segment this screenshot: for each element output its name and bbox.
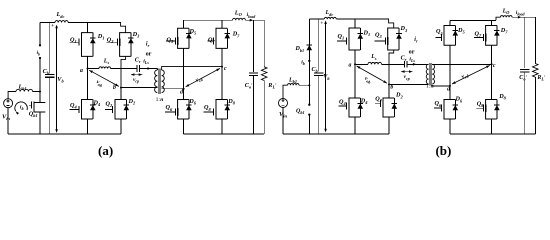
svg-text:Ls: Ls	[103, 59, 110, 66]
secondary top bus (a)	[184, 19, 233, 21]
wire node a to Q4	[87, 69, 89, 100]
svg-text:Lb1: Lb1	[288, 77, 297, 84]
switch Q1 / diode D1	[70, 33, 105, 57]
wire LO to output	[245, 19, 264, 21]
current arrow iload (a)	[247, 12, 257, 21]
node d	[180, 88, 184, 96]
node b (b)	[388, 83, 393, 90]
primary top bus (a)	[40, 22, 55, 24]
wire Ls to Cr (b)	[382, 63, 405, 65]
svg-text:Ldc: Ldc	[325, 10, 334, 17]
svg-text:n: n	[160, 97, 163, 103]
svg-text:ib: ib	[301, 59, 305, 66]
svg-text:Co′: Co′	[519, 75, 527, 82]
svg-text:b: b	[390, 84, 393, 90]
switch Q2 / diode D2 (b)	[375, 92, 404, 117]
switch Q3 / diode D3 (b)	[375, 25, 408, 50]
Qb1 body	[29, 101, 45, 112]
svg-text:RL′: RL′	[536, 75, 546, 82]
svg-text:+: +	[320, 21, 323, 27]
voltage arrow vcp (b)	[401, 70, 413, 80]
riser boost node to top bus with terminals	[37, 23, 42, 92]
wire Vin bottom to bus (b)	[282, 108, 284, 135]
primary top bus (b)	[309, 18, 324, 20]
wire bus to Q7	[221, 20, 223, 28]
svg-text:Vb: Vb	[323, 74, 330, 81]
wire bus to Q1 (b)	[354, 19, 356, 28]
wire transformer primary top	[156, 69, 158, 71]
transformer T (a) 1:n	[155, 68, 165, 103]
wire Cr to transformer (b)	[407, 63, 429, 65]
svg-text:ib: ib	[37, 51, 40, 57]
wire node d to Q6	[183, 89, 185, 100]
svg-text:ir: ir	[414, 37, 418, 44]
switch Q5 / diode D5	[166, 28, 197, 49]
current arrow iLs (a)	[143, 59, 151, 70]
wire LO to output (b)	[512, 16, 535, 18]
wire Q6 to bus	[183, 119, 185, 134]
capacitor Cr (b)	[401, 55, 408, 67]
wire node d to Q6 (b)	[449, 86, 451, 100]
wire node b to primary bottom	[121, 87, 157, 89]
voltage arrow vcd (b)	[452, 65, 490, 84]
wire node b to Q2	[120, 88, 122, 100]
wire Q1 source to node a	[87, 56, 89, 68]
svg-text:or: or	[146, 51, 152, 58]
wire bus to Q5	[183, 20, 185, 28]
current arrow iLs (b)	[409, 57, 416, 66]
inductor LO (b)	[501, 8, 513, 17]
wire Q4 source to bus	[87, 119, 89, 134]
capacitor Cr (a)	[135, 58, 141, 72]
svg-text:vcp: vcp	[404, 74, 410, 81]
wire Cr to transformer	[140, 68, 158, 70]
svg-text:iload: iload	[516, 10, 526, 17]
wire Lb1 to boost node (b)	[299, 84, 309, 86]
transistor Qb1 terminals (b)	[296, 85, 310, 134]
wire Vin top to Lb1 (b)	[283, 85, 288, 98]
source Vin (a)	[2, 99, 13, 122]
voltage arrow Vb (a)	[51, 23, 64, 133]
switch Q3 / diode D3	[107, 31, 141, 57]
wire node b to Q2 (b)	[388, 84, 390, 98]
current arrow ib (b)	[301, 59, 310, 66]
voltage arrow vcp (a)	[131, 73, 143, 83]
svg-text:c: c	[493, 63, 496, 69]
capacitor Cb (b)	[312, 19, 324, 134]
wire Q7 to node c (b)	[491, 45, 493, 64]
wire Q6 to bus (b)	[449, 119, 451, 134]
node b	[113, 85, 122, 91]
wire bus to Q1	[87, 23, 89, 33]
inductor LO (a)	[233, 9, 246, 20]
svg-text:(a): (a)	[98, 143, 113, 158]
wire bus jog to Q3 (b)	[389, 19, 394, 28]
wire Q4 to bus (b)	[354, 117, 356, 134]
wire Q3 to node b (b)	[389, 50, 394, 84]
wire Vin bottom to ground bus	[7, 108, 9, 134]
svg-text:or: or	[409, 48, 415, 55]
svg-text:iload: iload	[247, 12, 257, 19]
svg-text:c: c	[224, 66, 227, 72]
svg-text:Cr: Cr	[401, 55, 407, 62]
inductor Lb1 (a)	[16, 84, 33, 92]
svg-text:Cr: Cr	[135, 58, 141, 65]
primary ground bus (b)	[283, 133, 389, 135]
resistor RL' (a)	[261, 20, 277, 134]
switch Q6 / diode D6	[165, 98, 197, 119]
inductor Ldc (b)	[324, 10, 336, 19]
voltage arrow Vb (b)	[320, 20, 330, 132]
svg-text:iLs: iLs	[409, 57, 415, 64]
inductor Ls (b)	[368, 54, 382, 64]
svg-text:d: d	[180, 89, 183, 95]
svg-text:n: n	[431, 84, 434, 90]
transformer T (b) 1:n	[426, 63, 435, 90]
secondary ground bus (b)	[450, 133, 535, 135]
wire node a to Ls (b)	[355, 63, 368, 65]
current arrow ib (a)	[15, 102, 27, 115]
wire secondary top to node c (b)	[432, 63, 491, 65]
wire secondary top to node c	[162, 67, 222, 70]
switch Q4 / diode D4	[70, 99, 101, 119]
wire bus to Q7 (b)	[491, 20, 493, 25]
svg-text:Db1: Db1	[295, 46, 305, 53]
wire node c to Q8	[221, 67, 223, 100]
capacitor Cb (a)	[43, 23, 55, 135]
label ir or (a)	[146, 41, 152, 57]
switch Q6 / diode D6 (b)	[434, 96, 463, 119]
resistor RL' (b)	[533, 17, 547, 134]
node d (b)	[447, 85, 451, 93]
voltage arrow vab (a)	[89, 70, 119, 88]
wire bus jog to Q3	[121, 23, 126, 33]
inductor Ls (a)	[99, 59, 111, 69]
voltage arrow vab (b)	[357, 66, 387, 85]
wire Q3 source to node b	[121, 56, 126, 87]
wire Q1 to node a (b)	[354, 50, 356, 64]
wire Q7 to node c	[221, 48, 223, 66]
svg-text:a: a	[80, 68, 83, 74]
svg-text:vcp: vcp	[133, 77, 139, 84]
wire Q2 to bus (b)	[388, 117, 390, 134]
wire node a to Q4 (b)	[354, 64, 356, 98]
svg-text:Qb1: Qb1	[296, 109, 305, 116]
secondary top bus (b)	[450, 19, 496, 21]
wire Q8 to bus (b)	[491, 119, 493, 134]
switch Q5 / diode D5 (b)	[436, 26, 466, 46]
capacitor Co' (a)	[245, 20, 258, 134]
label ir or (b)	[409, 37, 418, 56]
wire Q5 to node d leg (b)	[449, 45, 451, 86]
svg-text:+: +	[51, 23, 54, 29]
wire secondary bottom to node d	[162, 88, 184, 90]
wire node c to Q8 (b)	[491, 64, 493, 99]
wire Vin top to Lb1	[8, 92, 16, 99]
wire Q5 to node d leg	[183, 48, 185, 88]
voltage arrow vcd (a)	[186, 68, 220, 86]
primary ground bus (a)	[8, 133, 121, 135]
svg-text:ib: ib	[20, 104, 24, 111]
svg-text:Ls: Ls	[370, 54, 377, 61]
current arrow iload (b)	[516, 10, 526, 19]
svg-text:LO: LO	[502, 8, 510, 15]
wire Qb1 source to bus	[39, 112, 41, 134]
source Vin (b)	[279, 99, 288, 119]
node a	[80, 68, 88, 75]
wire secondary bottom to node d (b)	[432, 85, 450, 87]
wire Q8 to bus	[221, 119, 223, 134]
wire Q2 source to bus	[120, 119, 122, 134]
switch Q8 / diode D8	[204, 98, 236, 119]
switch Q1 / diode D1 (b)	[337, 28, 370, 50]
wire node a to transformer (resonant link)	[88, 68, 100, 70]
svg-text:iLs: iLs	[143, 59, 149, 66]
inductor Ldc (a)	[55, 11, 68, 22]
wire Ls to Cr	[111, 68, 138, 70]
switch Q7 / diode D7	[208, 28, 240, 48]
svg-text:a: a	[349, 63, 352, 69]
wire node b to primary bottom (b)	[389, 83, 429, 85]
svg-text:(b): (b)	[435, 143, 451, 158]
wire bus to Q5 (b)	[449, 20, 451, 25]
node a (b)	[349, 63, 356, 69]
wire boost node to Qb1	[39, 92, 41, 103]
switch Q4 / diode D4 (b)	[339, 97, 369, 117]
node c (b)	[491, 63, 496, 69]
secondary ground bus (a)	[184, 133, 265, 135]
switch Q2 / diode D2	[105, 98, 136, 119]
switch Q8 / diode D8 (b)	[476, 93, 506, 119]
capacitor Co' (b)	[519, 17, 529, 134]
svg-text:ir: ir	[146, 41, 150, 48]
svg-text:RL′: RL′	[267, 82, 277, 90]
diode Db1 riser (b)	[295, 19, 313, 85]
wire Lb1 to boost node	[33, 91, 40, 93]
switch Q7 / diode D7 (b)	[474, 26, 508, 46]
svg-text:Cb: Cb	[312, 67, 319, 74]
inductor Lb1 (b)	[288, 77, 299, 85]
node c	[221, 66, 227, 72]
